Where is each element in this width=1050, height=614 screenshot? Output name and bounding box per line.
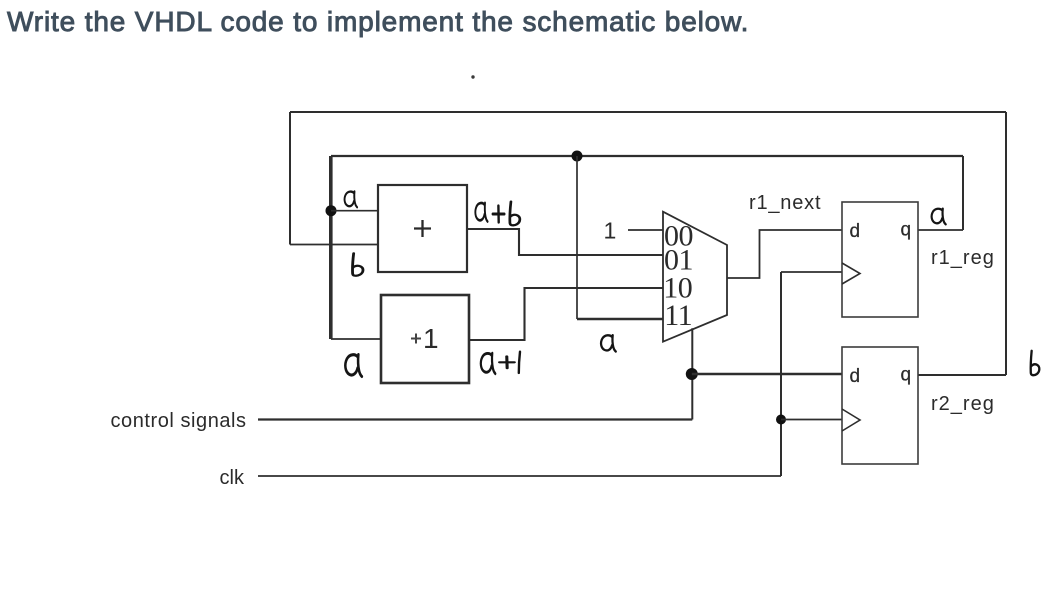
wire r2_reg q to outer loop bbox=[918, 374, 1006, 376]
wire a into adder bbox=[331, 210, 378, 212]
wire inner right down to r1 q bbox=[962, 156, 964, 230]
adder box bbox=[378, 185, 467, 272]
wire to r2_reg d bbox=[692, 373, 842, 375]
svg-text:q: q bbox=[901, 365, 912, 386]
handwritten label a+b: b bbox=[510, 202, 520, 226]
wire +1 output a+1 to mux 10 bbox=[469, 288, 663, 340]
wire outer top (b loop) bbox=[290, 111, 1006, 113]
svg-text:control signals: control signals bbox=[111, 410, 247, 432]
svg-text:r1_reg: r1_reg bbox=[931, 247, 995, 269]
handwritten label a (mux 11 input) bbox=[601, 335, 616, 351]
flip-flop r1_reg box bbox=[842, 202, 918, 317]
wire b into adder bbox=[290, 244, 378, 246]
svg-text:r1_next: r1_next bbox=[749, 192, 821, 214]
svg-text:q: q bbox=[901, 220, 912, 241]
stray period dot bbox=[471, 75, 474, 78]
svg-text:d: d bbox=[850, 366, 861, 387]
wire constant 1 to mux 00 bbox=[628, 229, 663, 231]
handwritten label b (adder input) bbox=[352, 253, 362, 275]
adder plus sign bbox=[414, 220, 431, 237]
handwritten label a+1 (+1 output): a bbox=[481, 353, 495, 373]
wire inner left vertical (a, thick) bbox=[329, 156, 333, 339]
svg-text:1: 1 bbox=[423, 323, 439, 354]
handwritten label a (adder input) bbox=[345, 191, 358, 207]
wire r1_reg q output bbox=[918, 229, 963, 231]
node junction clk / r2 bbox=[776, 415, 786, 425]
wire clk vertical bbox=[780, 272, 782, 476]
node junction select / r2 d bbox=[686, 368, 698, 380]
r2_reg clock triangle bbox=[842, 409, 860, 431]
wire outer right (b loop) bbox=[1005, 112, 1007, 375]
incrementer +1 box bbox=[381, 295, 469, 383]
flip-flop r2_reg box bbox=[842, 347, 918, 464]
node junction a / adder bbox=[326, 205, 337, 216]
handwritten label a+1: one bbox=[519, 352, 520, 373]
handwritten label a+b: plus bbox=[493, 206, 505, 222]
wire a into mux 11 bbox=[577, 318, 663, 320]
wire control signals bbox=[258, 418, 692, 420]
handwritten label a (r1_reg q) bbox=[932, 209, 946, 225]
svg-text:11: 11 bbox=[664, 299, 692, 332]
svg-text:r2_reg: r2_reg bbox=[931, 393, 995, 415]
handwritten label a+1: plus bbox=[500, 356, 515, 368]
r1_reg clock triangle bbox=[842, 263, 860, 284]
wire adder output a+b to mux 01 bbox=[467, 229, 663, 255]
svg-text:clk: clk bbox=[220, 467, 245, 489]
wire clk bbox=[258, 475, 781, 477]
wire mux select bbox=[691, 328, 693, 419]
handwritten label a+b (adder output): a bbox=[475, 203, 487, 222]
wire clk into r1_reg bbox=[781, 271, 842, 273]
mux trapezoid bbox=[663, 212, 727, 342]
wire mux output r1_next to r1_reg d bbox=[727, 230, 842, 278]
label +1 inside incrementer bbox=[411, 323, 439, 354]
wire clk into r2_reg bbox=[781, 419, 842, 421]
handwritten label a (+1 input) bbox=[345, 355, 361, 377]
handwritten label b (r2_reg q) bbox=[1031, 351, 1040, 375]
node junction a tap on inner top bbox=[572, 151, 583, 162]
wire outer left (b loop) bbox=[289, 112, 291, 245]
wire a into +1 bbox=[331, 338, 381, 340]
wire inner top (a loop) bbox=[331, 155, 963, 157]
svg-text:1: 1 bbox=[604, 218, 617, 244]
svg-text:d: d bbox=[850, 221, 861, 242]
wire a tap vertical bbox=[576, 156, 578, 319]
